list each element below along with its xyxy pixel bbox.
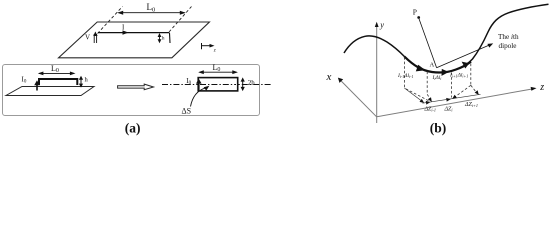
svg-text:(b): (b): [430, 120, 447, 135]
dipole arrowheads on curve: [416, 65, 426, 72]
x axis: [340, 80, 376, 117]
y axis: [376, 25, 378, 123]
line A to P: [419, 19, 437, 68]
svg-text:z: z: [539, 82, 544, 93]
small ground plane: [6, 87, 94, 96]
svg-text:2h: 2h: [248, 79, 256, 87]
h dimension (top): [159, 34, 161, 42]
wire end drop (right): [169, 33, 172, 43]
thick dipole chain overlay: [404, 57, 471, 73]
svg-text:L0: L0: [147, 2, 156, 14]
svg-text:ΔZi-1: ΔZi-1: [424, 107, 437, 113]
thick wire (box-left): [39, 79, 77, 85]
L0 dimension (box-left): [39, 72, 74, 74]
dS leader curve and arrow: [191, 88, 206, 107]
svg-text:h: h: [85, 77, 89, 84]
svg-text:P: P: [413, 8, 417, 17]
z axis marker (top right): [201, 43, 203, 49]
dashed projection line left: [98, 7, 123, 34]
dashed slants to dimension line: [406, 85, 478, 101]
solid slant foot1 to t1: [404, 88, 423, 102]
svg-text:IiΔli: IiΔli: [432, 75, 442, 81]
svg-text:The ith: The ith: [498, 33, 519, 41]
current arrow I on wire: [123, 30, 129, 34]
svg-text:I0: I0: [186, 77, 191, 86]
svg-text:I: I: [122, 24, 125, 32]
svg-text:x: x: [326, 71, 332, 83]
svg-text:L0: L0: [51, 64, 59, 74]
z axis: [377, 89, 534, 117]
ground plane (parallelogram): [59, 22, 210, 58]
dipole wire (top): [98, 32, 170, 34]
dash-dot centerline: [162, 84, 272, 86]
svg-text:ΔZi+1: ΔZi+1: [464, 102, 478, 108]
dimension line L0 with arrows: [119, 12, 185, 14]
svg-text:y: y: [379, 20, 384, 30]
svg-text:A: A: [430, 62, 435, 69]
svg-text:z: z: [213, 49, 216, 54]
main curve: [344, 4, 549, 72]
svg-text:(a): (a): [125, 120, 141, 135]
svg-text:ΔZi: ΔZi: [444, 107, 454, 113]
I0 bold arrow: [36, 84, 38, 91]
redraw centerline inside rect: [200, 84, 236, 86]
svg-text:dipole: dipole: [499, 42, 517, 50]
svg-text:I0: I0: [22, 76, 27, 85]
svg-text:V: V: [85, 34, 90, 42]
h dimension (box-left): [80, 78, 82, 87]
dashed verticals: [404, 57, 470, 98]
dimension line above z axis: [423, 94, 481, 103]
loop rectangle: [198, 78, 238, 91]
leader to dipole text: [437, 45, 490, 68]
svg-text:Ii-1Δli-1: Ii-1Δli-1: [397, 73, 414, 79]
dashed projection line right: [169, 7, 192, 33]
svg-text:Ii+1Δli+1: Ii+1Δli+1: [449, 73, 468, 79]
2h dimension: [242, 80, 244, 90]
dimension tick arrows cluster 1: [420, 99, 425, 103]
svg-text:ΔS: ΔS: [182, 107, 192, 116]
svg-text:h: h: [162, 36, 165, 42]
I0 bold arrow on left edge: [198, 82, 200, 90]
L0 dimension (box-right): [200, 71, 237, 73]
